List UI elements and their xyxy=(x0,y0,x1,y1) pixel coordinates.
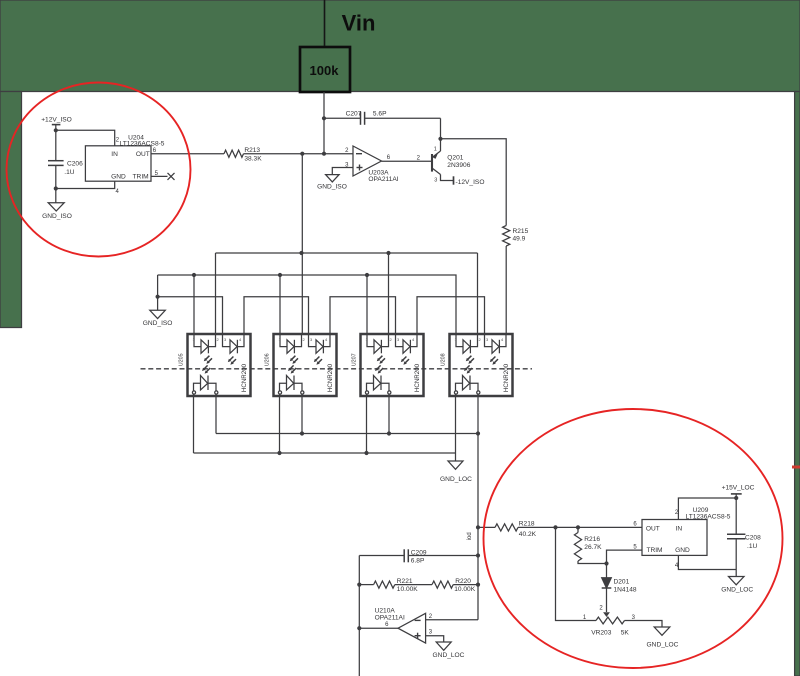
wire Vin to 100k xyxy=(324,0,326,47)
node GND_ISO junction dot xyxy=(156,295,160,299)
pin 4 label U204 xyxy=(116,189,120,195)
svg-text:IN: IN xyxy=(676,525,683,532)
svg-text:OUT: OUT xyxy=(136,151,150,158)
wire to GND_LOC (U209) xyxy=(735,570,737,577)
node C206/GND junction dot xyxy=(54,186,58,190)
node trim junction dot xyxy=(604,561,608,565)
svg-text:GND_LOC: GND_LOC xyxy=(647,641,679,648)
pin 2 label U210A xyxy=(429,614,433,620)
wire iod to R218 xyxy=(478,526,495,528)
node bus B dot 3 xyxy=(365,273,369,277)
node junction dot (Vin node) xyxy=(322,152,326,156)
wire to GND_ISO xyxy=(55,189,57,203)
node line2 dot 2 xyxy=(364,451,368,455)
resistor R221 xyxy=(374,578,419,593)
node iod junction dot xyxy=(476,525,480,529)
node dot (R216 branch) xyxy=(576,525,580,529)
node dot (VR203 branch) xyxy=(553,525,557,529)
node iod label xyxy=(467,532,473,540)
wire iod vertical xyxy=(477,434,479,620)
node +15V dot xyxy=(734,496,738,500)
svg-text:Q201: Q201 xyxy=(447,155,463,162)
svg-text:C208: C208 xyxy=(745,534,761,541)
wire Q201 emitter up xyxy=(440,139,442,151)
wire GND node down xyxy=(157,297,159,311)
svg-text:6.8P: 6.8P xyxy=(411,558,425,565)
pin label IN (U204) xyxy=(111,151,118,158)
svg-text:10.00K: 10.00K xyxy=(454,586,476,593)
svg-text:5.6P: 5.6P xyxy=(373,111,387,118)
svg-text:GND_LOC: GND_LOC xyxy=(433,652,465,659)
node bus B dot 2 xyxy=(278,273,282,277)
svg-text:OPA211AI: OPA211AI xyxy=(375,614,405,621)
svg-text:5: 5 xyxy=(633,544,637,550)
opto-isolator U208 HCNR200 xyxy=(441,334,513,396)
dashed isolation axis xyxy=(141,368,533,370)
green desktop background (left strip) xyxy=(0,92,22,328)
pin 1 label VR203 xyxy=(583,615,587,621)
svg-text:Vin: Vin xyxy=(342,11,376,36)
wire R213 to opamp xyxy=(244,153,354,155)
svg-text:U206: U206 xyxy=(265,353,271,366)
svg-text:38.3K: 38.3K xyxy=(244,155,262,162)
svg-text:.1U: .1U xyxy=(64,169,74,176)
svg-text:+12V_ISO: +12V_ISO xyxy=(41,117,72,124)
resistor R218 xyxy=(495,521,537,539)
svg-text:GND_ISO: GND_ISO xyxy=(42,213,72,220)
svg-text:HCNR200: HCNR200 xyxy=(241,363,248,392)
wire bridge U206-U207 xyxy=(330,297,396,334)
svg-text:GND_ISO: GND_ISO xyxy=(317,184,347,191)
ground GND_LOC (U209) xyxy=(721,577,753,594)
node R-line left dot xyxy=(357,583,361,587)
resistor R215 xyxy=(503,226,529,247)
node C209 branch dot xyxy=(476,553,480,557)
opto-isolator U206 HCNR200 xyxy=(265,334,337,396)
pin 5 label U204 xyxy=(155,171,159,177)
svg-text:1: 1 xyxy=(434,146,437,152)
svg-text:6: 6 xyxy=(387,155,391,161)
wire VR203 pin1 to iod node xyxy=(556,527,597,620)
svg-text:26.7K: 26.7K xyxy=(584,544,602,551)
ground GND_ISO (U203A) xyxy=(317,175,347,191)
node bus B dot 1 xyxy=(192,273,196,277)
capacitor C208 xyxy=(727,498,761,570)
power +12V_ISO xyxy=(41,117,72,131)
opto-isolator U205 HCNR200 xyxy=(179,334,251,396)
wire VR203 pin3 to ground xyxy=(625,621,663,628)
svg-text:R218: R218 xyxy=(519,521,535,528)
svg-text:GND_LOC: GND_LOC xyxy=(440,476,472,483)
ground GND_ISO (opto bus) xyxy=(143,310,173,327)
wire 100k to node A xyxy=(323,92,325,154)
capacitor C207 xyxy=(324,111,441,125)
pin 2 label VR203 xyxy=(599,605,603,611)
node emitter junction dot xyxy=(438,137,442,141)
no-connect X (TRIM U204) xyxy=(168,173,175,180)
pin 6 label U203A xyxy=(387,155,391,161)
wire left rail xyxy=(358,556,360,676)
svg-text:10.00K: 10.00K xyxy=(397,586,419,593)
wire bridge U207-U208 xyxy=(417,297,485,334)
svg-text:GND: GND xyxy=(675,547,690,554)
ground GND_ISO (U204) xyxy=(42,203,72,220)
power -12V_ISO xyxy=(454,176,485,186)
wire plus input to ground xyxy=(426,636,444,642)
pin 6 label U210A xyxy=(385,622,389,628)
pin label TRIM (U209) xyxy=(646,547,662,554)
svg-text:GND_ISO: GND_ISO xyxy=(143,320,173,327)
diode D201 1N4148 xyxy=(602,564,637,613)
wire emitter node to R215 xyxy=(441,139,507,226)
opto-isolator U207 HCNR200 xyxy=(352,334,424,396)
pin label OUT (U209) xyxy=(646,525,660,532)
pin label TRIM (U204) xyxy=(133,173,149,180)
svg-text:LT1236ACS8-5: LT1236ACS8-5 xyxy=(686,514,731,521)
svg-text:OPA211AI: OPA211AI xyxy=(368,176,398,183)
wire bus B (LED anode pins) xyxy=(158,275,456,334)
red pen circle (around U209 block) xyxy=(484,409,783,668)
pin 3 label VR203 xyxy=(632,615,636,621)
pin 4 label U209 xyxy=(675,563,679,569)
node bus A dot 2 xyxy=(386,251,390,255)
svg-text:LT1236ACS8-5: LT1236ACS8-5 xyxy=(120,140,165,147)
wire opamp out to Q201 base xyxy=(382,160,433,162)
resistor 100k (input box) xyxy=(300,47,350,92)
resistor R220 xyxy=(432,578,478,593)
svg-text:U208: U208 xyxy=(441,353,447,366)
wire R218 to U209 OUT xyxy=(518,526,642,528)
svg-text:-12V_ISO: -12V_ISO xyxy=(456,179,485,186)
wire U204 OUT to R213 xyxy=(151,153,224,155)
svg-text:iod: iod xyxy=(467,532,473,540)
op-amp U203A xyxy=(353,146,399,183)
wire U209 GND to ground xyxy=(678,555,736,569)
node line1 dot 2 xyxy=(387,431,391,435)
red pen circle (around U204 block) xyxy=(7,83,191,257)
node output junction dot xyxy=(357,626,361,630)
wire between R220 and R221 xyxy=(395,584,432,586)
svg-text:HCNR200: HCNR200 xyxy=(414,363,421,392)
label LT1236ACS8-5 (U209) xyxy=(686,514,731,521)
svg-text:OUT: OUT xyxy=(646,525,660,532)
pin 5 label U209 xyxy=(633,544,637,550)
wire U210A output xyxy=(359,627,398,629)
label U209 xyxy=(693,507,709,514)
label LT1236ACS8-5 (U204) xyxy=(120,140,165,147)
pin 3 label U203A xyxy=(345,163,349,169)
pin label IN (U209) xyxy=(676,525,683,532)
svg-text:6: 6 xyxy=(153,148,157,154)
IC U209 box xyxy=(642,520,707,556)
wire node A to bus A xyxy=(301,154,303,334)
svg-text:5K: 5K xyxy=(621,630,630,637)
svg-text:+15V_LOC: +15V_LOC xyxy=(722,484,755,491)
wire C207 to emitter node xyxy=(440,118,442,139)
svg-text:U205: U205 xyxy=(179,353,185,366)
capacitor C206 xyxy=(48,130,83,188)
potentiometer VR203 body xyxy=(591,617,629,637)
pin label OUT (U204) xyxy=(136,151,150,158)
potentiometer VR203 5K wiper arrow xyxy=(603,612,610,617)
wire bus A (signal to LED cathode pins) xyxy=(216,253,478,334)
node Vin label xyxy=(342,11,376,36)
svg-text:HCNR200: HCNR200 xyxy=(327,363,334,392)
svg-text:R221: R221 xyxy=(397,578,413,585)
pin 3 label U210A xyxy=(429,630,433,636)
wire GND node to U205 pin3 xyxy=(158,297,223,334)
svg-text:2: 2 xyxy=(599,605,603,611)
svg-text:3: 3 xyxy=(434,177,437,183)
svg-text:6: 6 xyxy=(633,522,637,528)
svg-text:U210A: U210A xyxy=(375,607,396,614)
svg-text:C207: C207 xyxy=(346,111,362,118)
wire U204 pin4 to ground node xyxy=(56,181,115,188)
svg-text:R220: R220 xyxy=(455,578,471,585)
pin 6 label U204 xyxy=(153,148,157,154)
svg-text:49.9: 49.9 xyxy=(513,236,526,243)
wire R215 to U208 xyxy=(505,246,507,334)
wire Q201 collector to -12V xyxy=(441,175,454,181)
power +15V_LOC xyxy=(722,484,755,498)
wire +input to ground xyxy=(332,168,353,175)
resistor R213 xyxy=(224,147,262,162)
capacitor C209 xyxy=(359,549,478,564)
svg-text:D201: D201 xyxy=(614,578,630,585)
label U204 xyxy=(128,134,144,141)
ground GND_LOC (VR203) xyxy=(647,627,679,648)
node C207 branch dot xyxy=(322,116,326,120)
svg-text:GND_LOC: GND_LOC xyxy=(721,587,753,594)
wire R216 to trim node xyxy=(578,561,607,564)
svg-text:TRIM: TRIM xyxy=(133,173,149,180)
node bus A dot 1 xyxy=(299,251,303,255)
node line2 dot 1 xyxy=(277,451,281,455)
pin 6 label U209 xyxy=(633,522,637,528)
svg-text:R215: R215 xyxy=(513,228,529,235)
green desktop background (right strip) xyxy=(795,92,800,676)
svg-text:C209: C209 xyxy=(411,549,427,556)
pin 2 label U209 xyxy=(675,510,679,516)
node line1 dot 1 xyxy=(300,431,304,435)
op-amp U210A xyxy=(375,607,426,643)
node +12V junction dot xyxy=(54,128,58,132)
wire bridge U205-U206 xyxy=(244,297,309,334)
svg-text:2N3906: 2N3906 xyxy=(447,162,470,169)
wire U209 IN to +15V xyxy=(678,498,736,520)
svg-text:6: 6 xyxy=(385,622,389,628)
wire +12V to U204 pin2 xyxy=(56,130,115,146)
node junction dot (to opto bus) xyxy=(300,152,304,156)
red pen mark on right strip xyxy=(792,466,800,469)
pin 2 label U203A xyxy=(345,148,349,154)
ground GND_LOC (opto) xyxy=(440,461,472,483)
svg-text:1N4148: 1N4148 xyxy=(614,586,637,593)
svg-text:4: 4 xyxy=(116,189,120,195)
svg-text:HCNR200: HCNR200 xyxy=(503,363,510,392)
pin 2 label U204 xyxy=(116,138,120,144)
svg-text:40.2K: 40.2K xyxy=(519,531,537,538)
ground GND_LOC (U210A) xyxy=(433,642,465,659)
transistor Q201 xyxy=(432,146,471,183)
wire bus B to GND_ISO node xyxy=(157,275,159,297)
pin label GND (U204) xyxy=(111,173,126,180)
wire photodiode cathode bus (line1) xyxy=(216,396,478,434)
IC U204 box xyxy=(85,146,151,181)
svg-text:VR203: VR203 xyxy=(591,630,611,637)
green desktop background (top band) xyxy=(0,0,800,92)
pin label GND (U209) xyxy=(675,547,690,554)
wire minus input U210A xyxy=(426,619,478,621)
svg-text:3: 3 xyxy=(429,630,433,636)
svg-text:U207: U207 xyxy=(352,353,358,366)
wire R221 to left rail xyxy=(359,584,373,586)
wire U209 TRIM to trim node xyxy=(607,550,643,563)
node R-line right dot xyxy=(476,583,480,587)
svg-text:.1U: .1U xyxy=(747,543,757,550)
resistor R216 xyxy=(574,527,602,561)
svg-text:GND: GND xyxy=(111,173,126,180)
svg-text:R216: R216 xyxy=(584,536,600,543)
svg-text:TRIM: TRIM xyxy=(646,547,662,554)
wire U204 TRIM no-connect xyxy=(151,175,168,177)
svg-text:C206: C206 xyxy=(67,161,83,168)
svg-text:100k: 100k xyxy=(310,63,340,78)
pin 2 label Q201 xyxy=(417,156,421,162)
wire photodiode anode bus (line2) xyxy=(194,396,456,461)
node line1 dot 3 xyxy=(476,431,480,435)
svg-text:IN: IN xyxy=(111,151,118,158)
